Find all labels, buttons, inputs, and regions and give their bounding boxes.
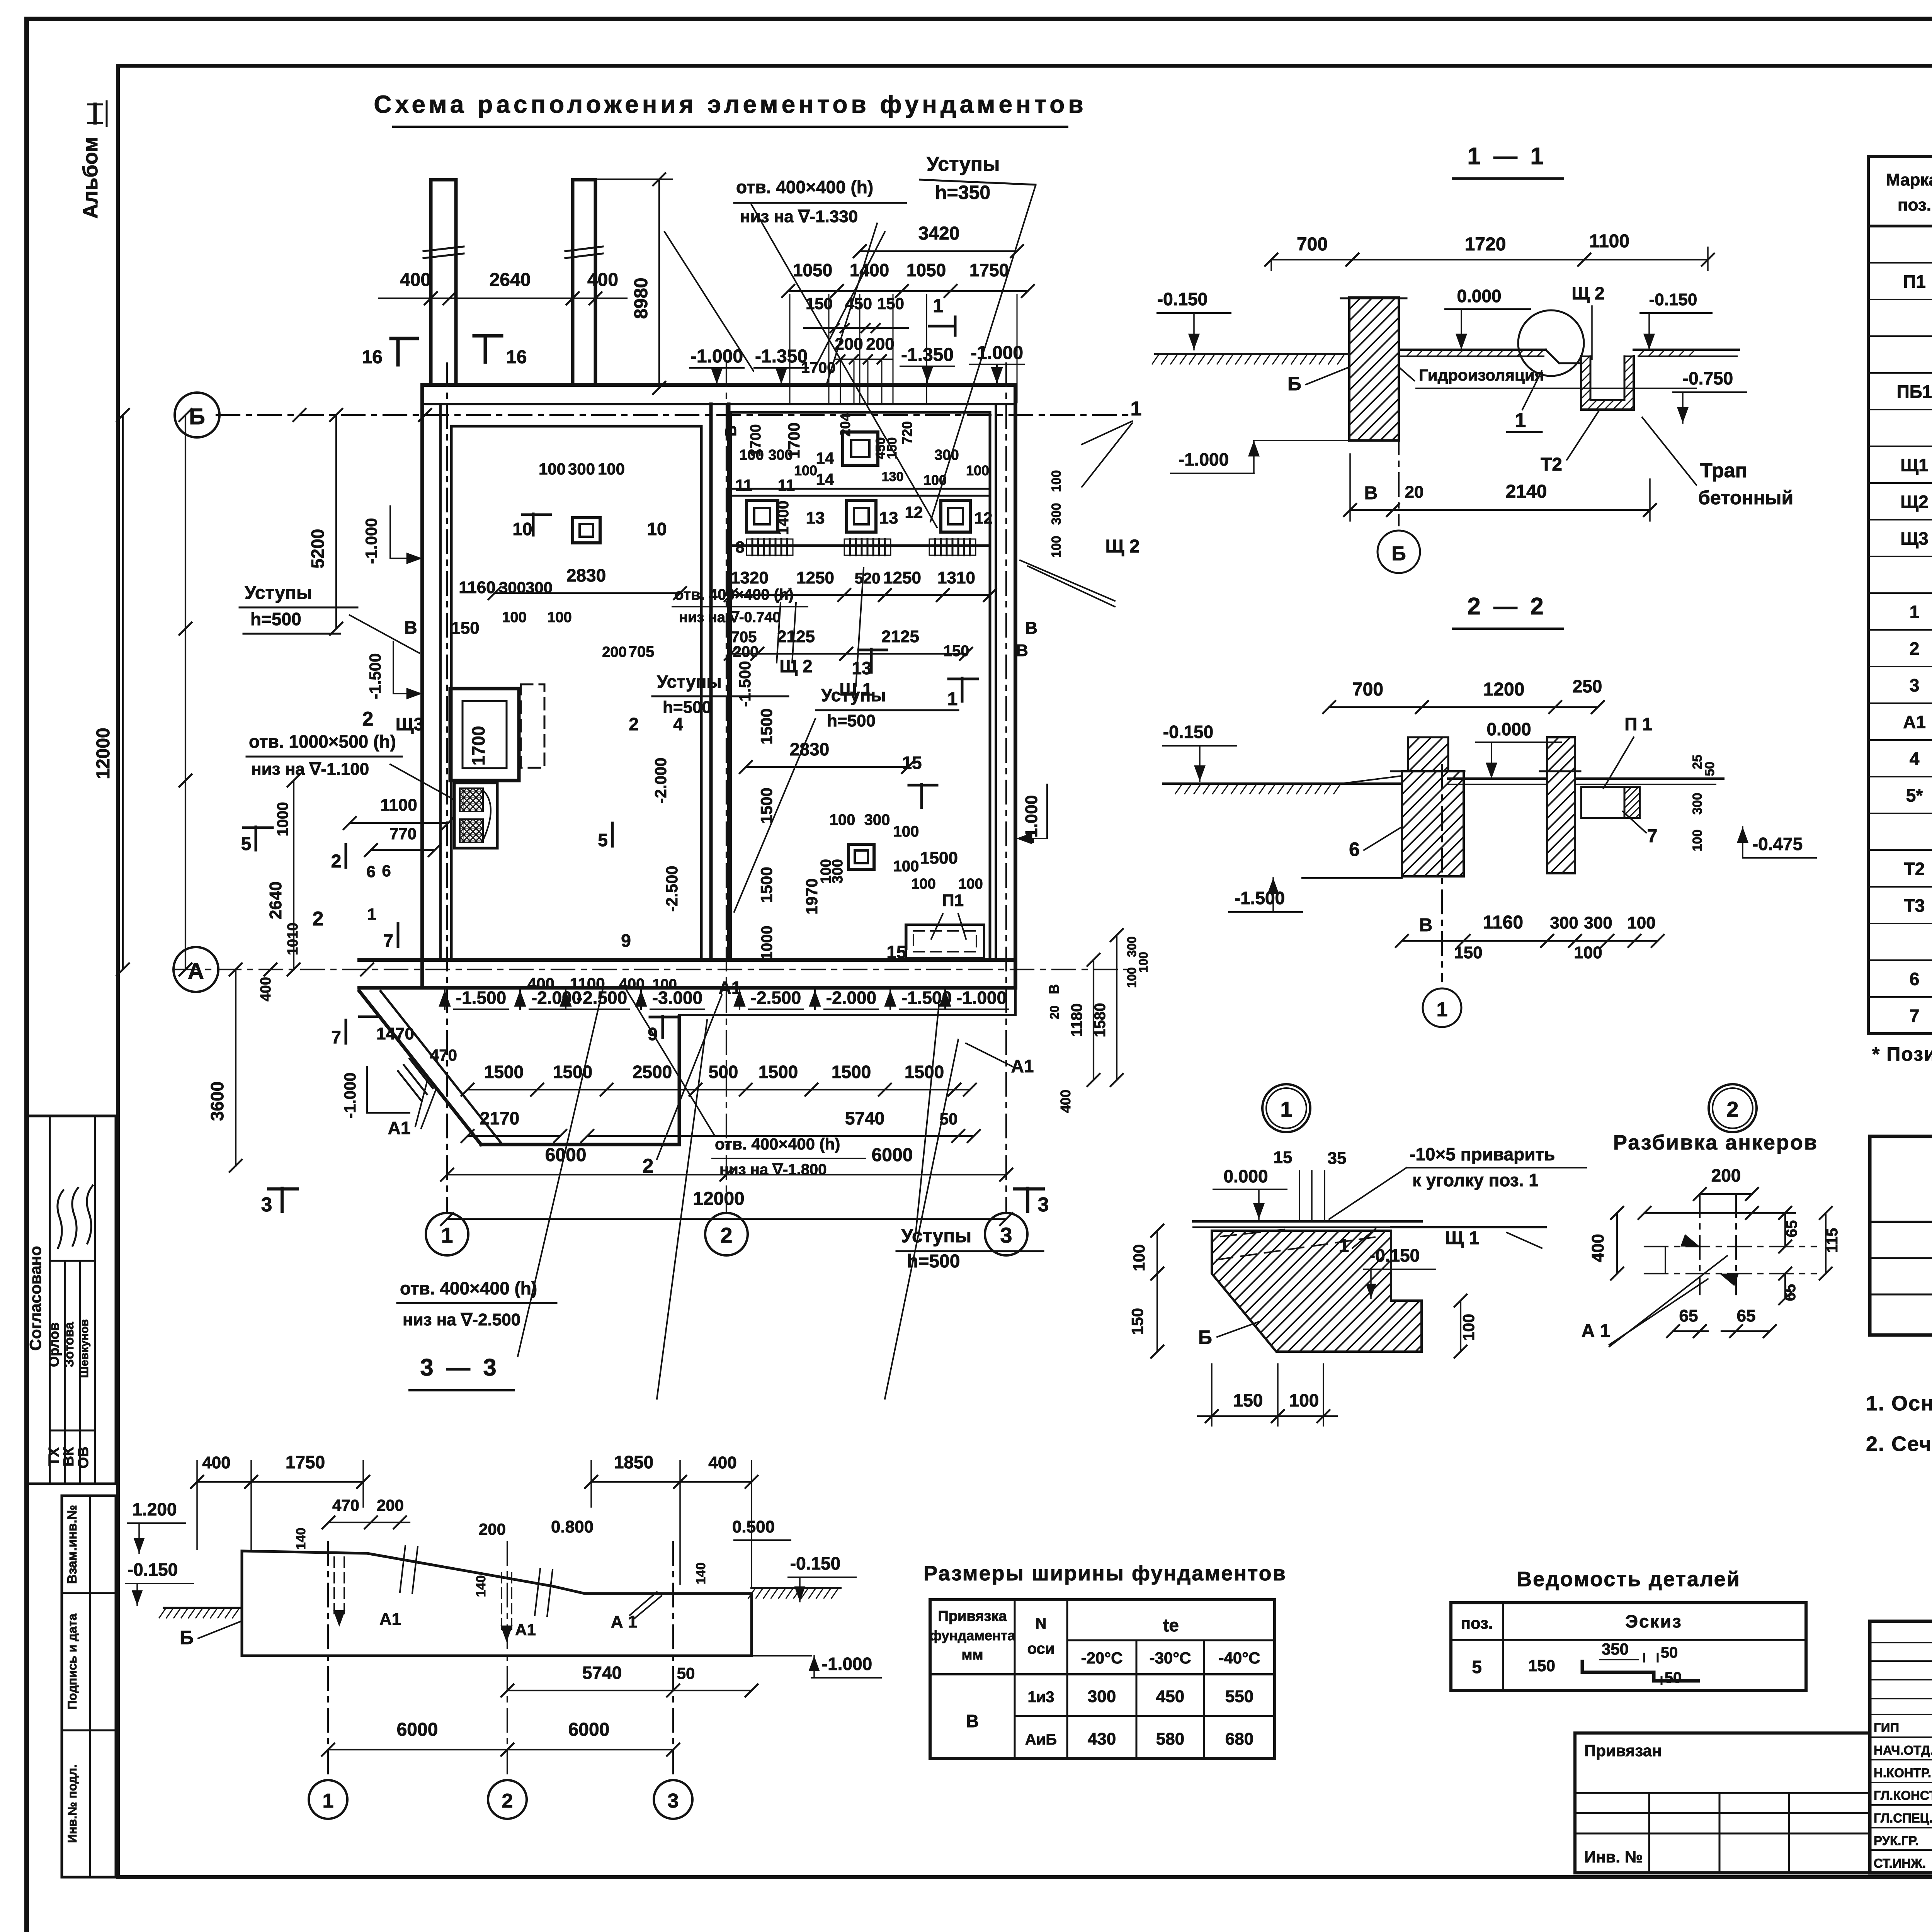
svg-text:150: 150: [944, 643, 969, 660]
svg-text:2: 2: [502, 1790, 513, 1812]
svg-text:7: 7: [331, 1027, 341, 1047]
svg-text:5740: 5740: [845, 1108, 884, 1128]
svg-text:150: 150: [1233, 1390, 1263, 1410]
svg-text:отв. 1000×500 (h): отв. 1000×500 (h): [249, 731, 396, 752]
svg-text:100: 100: [893, 823, 919, 840]
svg-text:ОВ: ОВ: [75, 1447, 92, 1469]
svg-text:100: 100: [502, 609, 526, 626]
svg-text:ГИП: ГИП: [1874, 1721, 1899, 1735]
svg-text:100: 100: [1289, 1390, 1319, 1410]
section 1-1 detail circle: [1518, 310, 1584, 376]
axis 2 line: [726, 363, 727, 1213]
svg-text:ТХ: ТХ: [46, 1447, 62, 1466]
svg-text:400: 400: [708, 1453, 736, 1472]
svg-text:2170: 2170: [480, 1108, 519, 1128]
section 3-3 axis lines: [327, 1542, 329, 1777]
svg-text:В: В: [404, 617, 417, 638]
svg-text:НАЧ.ОТД.: НАЧ.ОТД.: [1874, 1743, 1932, 1757]
detail 2 circle: [1709, 1084, 1757, 1132]
svg-text:400: 400: [1588, 1234, 1607, 1262]
svg-text:100: 100: [1574, 943, 1602, 962]
svg-text:300: 300: [864, 811, 890, 828]
svg-text:-2.000: -2.000: [826, 988, 876, 1008]
svg-text:400: 400: [258, 977, 274, 1001]
svg-text:20: 20: [1048, 1005, 1061, 1019]
svg-text:1500: 1500: [920, 849, 958, 867]
section 1-1 trap channel: [1581, 356, 1634, 410]
pad footing left room: [573, 518, 600, 543]
svg-text:100: 100: [911, 876, 935, 892]
svg-text:Щ 2: Щ 2: [779, 656, 812, 676]
svg-text:1: 1: [323, 1790, 334, 1812]
svg-text:100: 100: [1690, 830, 1705, 852]
svg-text:100: 100: [958, 876, 983, 892]
left dim chain x480: [185, 415, 186, 969]
svg-text:2500: 2500: [633, 1062, 672, 1082]
svg-text:2: 2: [629, 714, 639, 734]
left dim 12000: [122, 415, 124, 969]
svg-text:5740: 5740: [582, 1663, 622, 1683]
svg-text:100: 100: [1049, 536, 1064, 558]
svg-text:6: 6: [1349, 838, 1360, 860]
svg-text:В: В: [966, 1711, 979, 1731]
svg-text:-20°C: -20°C: [1081, 1649, 1123, 1667]
svg-text:16: 16: [506, 347, 527, 367]
svg-text:200: 200: [377, 1496, 404, 1514]
svg-text:12: 12: [905, 503, 923, 521]
svg-text:100: 100: [598, 460, 625, 478]
svg-text:В: В: [1364, 483, 1378, 503]
svg-text:400: 400: [202, 1453, 230, 1472]
svg-text:1750: 1750: [969, 260, 1009, 280]
axis circle 2: [705, 1213, 748, 1255]
svg-text:-10×5 приварить: -10×5 приварить: [1410, 1144, 1555, 1164]
svg-text:Инв. №: Инв. №: [1584, 1848, 1643, 1866]
svg-text:А1: А1: [379, 1610, 401, 1629]
svg-text:-1.350: -1.350: [901, 345, 954, 365]
svg-text:580: 580: [1156, 1730, 1184, 1748]
svg-text:Орлов: Орлов: [46, 1322, 62, 1367]
svg-text:100: 100: [830, 811, 855, 828]
svg-text:-0.475: -0.475: [1752, 834, 1803, 854]
svg-text:Б: Б: [1391, 543, 1406, 565]
svg-text:680: 680: [1225, 1730, 1253, 1748]
svg-text:10: 10: [512, 519, 532, 539]
svg-text:50: 50: [1702, 762, 1717, 776]
svg-text:300: 300: [768, 447, 793, 463]
svg-text:400: 400: [1058, 1090, 1073, 1113]
svg-text:200: 200: [733, 643, 759, 660]
svg-text:1: 1: [1910, 602, 1920, 622]
svg-text:12: 12: [975, 509, 993, 527]
svg-text:-0.150: -0.150: [1649, 290, 1697, 309]
svg-text:отв. 400×400 (h): отв. 400×400 (h): [736, 177, 873, 197]
svg-text:100: 100: [539, 460, 566, 478]
svg-text:400: 400: [587, 270, 618, 290]
crosshatched pit: [454, 783, 497, 848]
svg-text:2: 2: [720, 1223, 732, 1247]
svg-text:250: 250: [1573, 676, 1602, 696]
svg-text:Б: Б: [1287, 373, 1301, 395]
svg-text:Эскиз: Эскиз: [1625, 1611, 1682, 1631]
svg-text:0.000: 0.000: [1486, 719, 1531, 739]
svg-text:2125: 2125: [881, 627, 919, 646]
svg-text:В: В: [1419, 915, 1433, 935]
vedomost frame: [1451, 1603, 1806, 1690]
svg-text:-1.500: -1.500: [366, 653, 384, 699]
svg-text:П1: П1: [1903, 272, 1926, 292]
svg-text:А 1: А 1: [611, 1612, 637, 1631]
svg-text:-0.150: -0.150: [1157, 289, 1207, 309]
svg-text:1500: 1500: [757, 708, 776, 744]
svg-text:1000: 1000: [274, 802, 291, 837]
svg-text:0.000: 0.000: [1457, 286, 1501, 306]
detail 1 circle: [1262, 1084, 1310, 1132]
svg-text:300: 300: [1049, 503, 1064, 525]
svg-text:1310: 1310: [937, 568, 975, 587]
svg-text:Щ3: Щ3: [396, 714, 423, 734]
svg-text:5: 5: [598, 830, 608, 850]
svg-text:1010: 1010: [285, 923, 301, 956]
svg-text:СТ.ИНЖ.: СТ.ИНЖ.: [1874, 1856, 1926, 1871]
svg-text:поз.: поз.: [1898, 196, 1931, 214]
svg-text:100: 100: [1049, 470, 1064, 492]
right room inner outline: [731, 412, 990, 960]
svg-text:ГЛ.КОНСТР: ГЛ.КОНСТР: [1874, 1788, 1932, 1803]
svg-text:1180: 1180: [1068, 1003, 1085, 1037]
svg-text:2140: 2140: [1506, 481, 1547, 502]
detail 1 top plate: [1193, 1220, 1422, 1223]
svg-text:1000: 1000: [759, 926, 776, 960]
left dim 2640 1010 400: [293, 781, 294, 969]
svg-text:100: 100: [893, 858, 919, 875]
svg-text:15: 15: [886, 942, 906, 962]
svg-text:450: 450: [1156, 1687, 1184, 1706]
svg-text:430: 430: [1088, 1730, 1116, 1748]
svg-text:1400: 1400: [850, 260, 889, 280]
section 3-3 ground right: [752, 1587, 840, 1589]
svg-text:15: 15: [902, 753, 922, 773]
svg-text:1700: 1700: [801, 359, 836, 376]
svg-text:В: В: [1046, 984, 1062, 994]
svg-text:140: 140: [474, 1575, 488, 1597]
svg-text:200: 200: [866, 335, 894, 354]
svg-text:Альбом: Альбом: [79, 137, 102, 219]
pad footing row r2: [847, 500, 876, 532]
svg-text:150: 150: [877, 294, 904, 313]
svg-text:3 — 3: 3 — 3: [420, 1354, 499, 1381]
svg-text:В: В: [723, 425, 740, 437]
svg-text:А: А: [188, 959, 204, 984]
svg-text:13: 13: [852, 658, 871, 678]
section 2-2 floor: [1448, 777, 1547, 780]
svg-text:7: 7: [1647, 826, 1658, 847]
svg-text:А1: А1: [1011, 1056, 1034, 1076]
svg-text:Уступы: Уступы: [245, 583, 312, 603]
svg-text:520: 520: [855, 570, 881, 587]
svg-text:16: 16: [362, 347, 383, 367]
svg-text:ВК: ВК: [61, 1447, 77, 1466]
svg-text:200: 200: [479, 1520, 506, 1538]
axis circle 3: [985, 1213, 1027, 1255]
svg-text:100: 100: [1459, 1314, 1478, 1341]
svg-text:700: 700: [1352, 679, 1383, 700]
axis circle 1: [426, 1213, 468, 1255]
axis B line: [216, 414, 1128, 416]
svg-text:Б: Б: [1198, 1327, 1212, 1348]
svg-text:140: 140: [294, 1528, 308, 1550]
svg-text:1700: 1700: [468, 726, 488, 765]
axis 1 line: [446, 363, 448, 1213]
svg-text:поз.: поз.: [1461, 1614, 1493, 1632]
svg-text:ГЛ.СПЕЦ.: ГЛ.СПЕЦ.: [1874, 1811, 1932, 1825]
svg-text:низ на ∇-0.740: низ на ∇-0.740: [679, 609, 781, 626]
left room inner outline: [451, 426, 701, 960]
svg-text:1: 1: [933, 295, 944, 316]
svg-text:1и3: 1и3: [1027, 1689, 1054, 1706]
svg-text:Б: Б: [180, 1627, 194, 1648]
svg-text:Щ 1: Щ 1: [1445, 1228, 1480, 1248]
stamp left attach table: [1575, 1733, 1870, 1873]
svg-text:фундамента: фундамента: [930, 1628, 1016, 1643]
axis circle A: [173, 947, 218, 992]
svg-text:2. Сечения 4-4... 16-16 см. ли: 2. Сечения 4-4... 16-16 см. лист 9.: [1866, 1432, 1932, 1456]
svg-text:6: 6: [382, 862, 391, 880]
svg-text:6000: 6000: [397, 1719, 438, 1740]
svg-text:204: 204: [837, 413, 853, 437]
svg-text:65: 65: [1679, 1306, 1698, 1325]
svg-text:-0.150: -0.150: [1369, 1245, 1420, 1265]
sidebar approval block: [27, 1116, 116, 1484]
svg-text:2: 2: [313, 908, 324, 930]
svg-text:1: 1: [1131, 398, 1142, 420]
section 1-1 foundation wall: [1349, 298, 1399, 440]
footing lower edge right of annex: [679, 1014, 1015, 1016]
svg-text:Согласовано: Согласовано: [26, 1246, 44, 1350]
svg-text:3: 3: [1038, 1194, 1049, 1216]
svg-text:Инв.№ подл.: Инв.№ подл.: [65, 1764, 79, 1843]
svg-text:Уступы: Уступы: [657, 672, 722, 692]
svg-text:Подпись и дата: Подпись и дата: [65, 1614, 79, 1709]
svg-text:отв. 400×400 (h): отв. 400×400 (h): [715, 1135, 840, 1153]
svg-text:-1.350: -1.350: [755, 346, 808, 367]
svg-text:АиБ: АиБ: [1025, 1731, 1057, 1748]
svg-text:Гидроизоляция: Гидроизоляция: [1419, 366, 1544, 384]
svg-text:1500: 1500: [759, 1062, 798, 1082]
svg-text:300: 300: [1550, 913, 1578, 932]
building plan outline: [422, 383, 1015, 387]
svg-text:1050: 1050: [906, 260, 946, 280]
svg-text:А1: А1: [1903, 712, 1926, 732]
detail 2 anchor axes: [1699, 1194, 1701, 1294]
svg-text:300: 300: [1584, 913, 1612, 932]
section 2-2 right pier: [1547, 737, 1575, 873]
pad footing top right: [843, 432, 878, 465]
svg-text:720: 720: [899, 421, 915, 444]
svg-text:-1.000: -1.000: [822, 1654, 872, 1674]
section 2-2 left footing: [1402, 771, 1464, 876]
svg-text:7: 7: [383, 930, 393, 951]
section 2-2 axis circle 1: [1441, 765, 1443, 981]
svg-text:3: 3: [668, 1790, 679, 1812]
svg-text:1100: 1100: [380, 796, 417, 815]
svg-text:4: 4: [673, 714, 683, 734]
svg-text:100: 100: [794, 463, 817, 478]
svg-text:50: 50: [1665, 1669, 1682, 1686]
svg-text:20: 20: [1405, 483, 1424, 502]
section 3-3 body: [242, 1551, 752, 1656]
svg-text:1500: 1500: [484, 1062, 524, 1082]
svg-text:1100: 1100: [1589, 231, 1629, 252]
svg-text:0.800: 0.800: [551, 1517, 594, 1536]
svg-text:Схема расположения элементов ф: Схема расположения элементов фундаментов: [374, 90, 1087, 118]
svg-text:5*: 5*: [1906, 786, 1923, 806]
svg-text:150: 150: [806, 294, 833, 313]
svg-text:3: 3: [1000, 1223, 1012, 1247]
svg-text:2: 2: [1910, 639, 1920, 659]
chimney pier 1: [431, 180, 456, 385]
left dim 5200: [335, 415, 337, 629]
svg-text:В: В: [1016, 641, 1028, 660]
section 1-1 axis circle B: [1398, 348, 1400, 526]
svg-text:14: 14: [816, 470, 834, 488]
svg-text:-30°C: -30°C: [1150, 1649, 1191, 1667]
svg-text:h=500: h=500: [250, 609, 301, 629]
top dim 8980: [658, 179, 660, 388]
svg-text:1500: 1500: [905, 1062, 944, 1082]
svg-text:1250: 1250: [796, 568, 834, 587]
spec table frame: [1868, 156, 1932, 1034]
svg-text:2640: 2640: [490, 270, 531, 290]
svg-text:14: 14: [816, 449, 834, 467]
svg-text:11: 11: [735, 476, 752, 494]
svg-text:-1.000: -1.000: [690, 346, 743, 367]
svg-text:1500: 1500: [553, 1062, 592, 1082]
svg-text:Щ2: Щ2: [1900, 492, 1928, 512]
svg-text:3: 3: [1910, 675, 1920, 696]
svg-text:Т2: Т2: [1904, 859, 1925, 879]
svg-text:400: 400: [400, 270, 431, 290]
svg-text:Привязан: Привязан: [1584, 1742, 1662, 1760]
sidebar inventory block: [62, 1496, 116, 1877]
svg-text:11: 11: [778, 476, 795, 494]
svg-text:150: 150: [451, 619, 479, 638]
svg-text:15: 15: [1274, 1148, 1293, 1167]
svg-text:1160: 1160: [459, 578, 495, 597]
slab P1 right dashed: [906, 925, 984, 958]
svg-text:h=350: h=350: [935, 182, 990, 203]
svg-text:Т2: Т2: [1541, 454, 1562, 475]
pad footing row r3: [941, 500, 970, 532]
svg-text:оси: оси: [1027, 1640, 1055, 1657]
svg-text:0.000: 0.000: [1223, 1166, 1268, 1186]
svg-text:700: 700: [1297, 234, 1328, 255]
svg-text:А1: А1: [515, 1621, 536, 1639]
svg-text:к уголку поз. 1: к уголку поз. 1: [1412, 1170, 1539, 1190]
svg-text:низ на ∇-2.500: низ на ∇-2.500: [403, 1310, 520, 1329]
svg-text:300: 300: [568, 460, 595, 478]
svg-text:N: N: [1036, 1615, 1047, 1632]
svg-text:770: 770: [389, 825, 417, 843]
svg-text:Н.КОНТР.: Н.КОНТР.: [1874, 1766, 1931, 1780]
chimney pier 2: [573, 180, 595, 385]
right room interior band lines: [731, 488, 990, 490]
svg-text:470: 470: [332, 1496, 359, 1514]
svg-text:Взам.инв.№: Взам.инв.№: [65, 1505, 80, 1584]
svg-text:200: 200: [602, 644, 626, 660]
svg-text:-0.150: -0.150: [128, 1560, 178, 1580]
svg-text:2830: 2830: [790, 739, 829, 759]
svg-text:300: 300: [934, 447, 959, 463]
svg-text:150: 150: [1128, 1308, 1146, 1335]
svg-text:бетонный: бетонный: [1698, 487, 1793, 509]
svg-text:1050: 1050: [793, 260, 832, 280]
svg-text:50: 50: [677, 1664, 695, 1682]
svg-text:12000: 12000: [693, 1189, 744, 1209]
svg-text:1: 1: [947, 689, 958, 709]
svg-text:150: 150: [885, 437, 900, 459]
svg-text:te: te: [1163, 1615, 1179, 1635]
svg-text:1160: 1160: [1483, 912, 1523, 933]
annex wing outline: [359, 991, 481, 1145]
section 2-2 channel slab: [1575, 777, 1723, 780]
svg-text:низ на ∇-1.100: низ на ∇-1.100: [251, 760, 369, 779]
svg-text:1: 1: [1515, 409, 1526, 432]
svg-text:300: 300: [1690, 793, 1705, 815]
svg-text:Щ 2: Щ 2: [1105, 536, 1140, 557]
section mark 1 top: [929, 325, 955, 328]
svg-text:1: 1: [441, 1223, 453, 1247]
svg-text:4: 4: [1910, 749, 1920, 769]
svg-text:1200: 1200: [1483, 679, 1525, 700]
svg-text:1.200: 1.200: [132, 1499, 177, 1519]
section 3-3 anchors: [333, 1557, 335, 1615]
axis A line: [176, 969, 1128, 970]
svg-text:Привязка: Привязка: [938, 1608, 1007, 1624]
detail 2 outline: [1645, 1212, 1795, 1214]
svg-text:-40°C: -40°C: [1219, 1649, 1260, 1667]
svg-text:-1.500: -1.500: [736, 661, 754, 707]
svg-text:100: 100: [966, 463, 989, 478]
section 1-1 ground line: [1155, 353, 1349, 355]
svg-text:1500: 1500: [757, 867, 776, 903]
svg-text:2: 2: [331, 851, 342, 872]
svg-text:-2.000: -2.000: [651, 757, 670, 803]
svg-text:Щ1: Щ1: [1900, 455, 1928, 475]
svg-text:5200: 5200: [308, 529, 328, 568]
svg-text:6000: 6000: [568, 1719, 610, 1740]
svg-text:1: 1: [1437, 998, 1448, 1021]
svg-text:500: 500: [709, 1062, 738, 1082]
svg-text:Щ 2: Щ 2: [1571, 283, 1604, 303]
svg-text:3: 3: [261, 1194, 272, 1216]
svg-text:100: 100: [1130, 1244, 1148, 1271]
svg-text:350: 350: [1602, 1640, 1629, 1658]
svg-text:-1.000: -1.000: [341, 1072, 359, 1118]
svg-text:1400: 1400: [775, 501, 792, 535]
svg-text:2125: 2125: [777, 627, 815, 646]
svg-text:9: 9: [621, 930, 631, 951]
svg-text:-0.150: -0.150: [1163, 722, 1213, 742]
svg-text:12000: 12000: [93, 728, 114, 779]
svg-text:150: 150: [1528, 1656, 1555, 1675]
svg-text:1500: 1500: [832, 1062, 871, 1082]
svg-text:150: 150: [1454, 943, 1482, 962]
section 3-3 ground left: [164, 1607, 242, 1609]
svg-text:1: 1: [1280, 1097, 1292, 1121]
svg-text:низ на ∇-1.800: низ на ∇-1.800: [719, 1161, 827, 1178]
svg-text:2640: 2640: [266, 881, 285, 919]
